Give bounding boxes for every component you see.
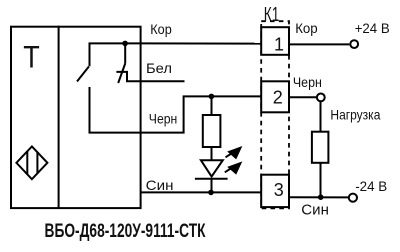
wire Sin from box to pin 3 [141,191,261,193]
node junction dot resistor branch [209,94,215,100]
connector K1 dashed body [261,21,289,208]
wire Kor from box to pin 1 [141,42,261,44]
LED light arrow 2 [225,162,242,174]
wire pin 3 to -24V terminal [289,196,348,198]
load resistor [312,132,329,163]
wire top rail Kor inside box [90,43,141,66]
LED VD1 triangle [201,160,223,176]
svg-text:Нагрузка: Нагрузка [330,106,380,122]
wire Bel stub from box [141,80,185,82]
wire LED to Sin rail [211,179,213,193]
connector pin 1 [261,27,289,55]
terminal +24V circle [350,40,358,48]
node junction dot LED to Sin [208,190,214,196]
connector pin 3 [261,175,289,207]
svg-text:К1: К1 [264,4,280,26]
node junction dot load to -24V rail [318,194,324,200]
svg-text:Син: Син [301,203,329,219]
svg-text:1: 1 [274,34,284,54]
svg-text:Кор: Кор [295,20,318,36]
LED VD1 cathode bar [195,178,228,180]
wire Chern from box up to pin 2 [141,96,261,132]
wire dot to resistor R1 [211,96,213,115]
svg-text:Черн: Черн [293,74,322,90]
wire resistor R1 to LED [211,147,213,160]
switch contact S2 vertical from dot [124,43,126,63]
svg-text:Кор: Кор [150,21,172,37]
wire load terminal down to load resistor [320,102,322,132]
resistor R1 [203,115,221,147]
terminal -24V circle [349,194,357,202]
svg-text:-24 В: -24 В [355,178,387,194]
svg-text:+24 В: +24 В [355,20,390,36]
wire pin 1 to +24V terminal [289,43,349,45]
switch contact S2 blade [118,64,125,84]
node junction dot on Kor rail [122,41,128,47]
terminal load circle [317,94,325,102]
LED light arrow 1 [226,147,242,159]
switch S1 lower wire to Chern rail [90,87,141,133]
optical sensor diamond symbol [16,146,47,179]
sensor body divider line [58,26,60,208]
svg-text:Син: Син [146,177,174,193]
svg-text:3: 3 [274,180,284,200]
switch contact S2 fixed step to Bel wire [116,72,140,81]
svg-text:2: 2 [273,88,283,108]
sensor body outer box [11,27,141,208]
wire pin 2 to load terminal [289,96,316,98]
svg-text:Черн: Черн [149,110,178,126]
svg-text:Бел: Бел [146,60,172,76]
switch contact S1 blade [77,67,89,82]
svg-text:ВБО-Д68-120У-9111-СТК: ВБО-Д68-120У-9111-СТК [45,221,206,242]
svg-text:Т: Т [23,38,40,74]
wire load resistor to -24V rail [320,163,322,197]
connector pin 2 [261,81,289,112]
